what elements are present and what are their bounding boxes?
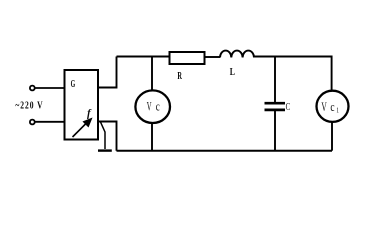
ground bar (98, 149, 112, 151)
wire junction down to voltmeter Vc (151, 57, 153, 91)
terminal bottom (30, 120, 35, 125)
terminal top (30, 86, 35, 91)
svg-text:V: V (147, 98, 152, 113)
capacitor branch bottom wire (274, 111, 276, 151)
wire top terminal to G (35, 87, 64, 89)
bottom rail (117, 150, 333, 152)
ground lead (101, 122, 106, 149)
top rail left segment (117, 56, 169, 58)
inductor L (220, 51, 254, 58)
capacitor C bottom plate (265, 109, 286, 112)
variable frequency arrow (73, 118, 93, 137)
generator G box (65, 70, 99, 140)
voltmeter Vc1 (317, 91, 349, 122)
svg-text:~220 V: ~220 V (15, 101, 43, 112)
svg-text:C: C (286, 101, 291, 113)
wire G bottom output down to bottom rail (99, 122, 117, 151)
svg-text:c: c (330, 100, 335, 114)
wire G top output to top rail (99, 57, 117, 88)
capacitor branch top wire (274, 57, 276, 103)
svg-text:L: L (230, 67, 235, 78)
svg-text:c: c (156, 98, 160, 113)
voltmeter Vc (135, 90, 170, 123)
wire Vc1 bottom to bottom rail (331, 122, 333, 151)
wire resistor to inductor (206, 56, 221, 58)
wire Vc bottom to bottom rail (151, 123, 153, 151)
top rail right segment to right corner, down to Vc1 (254, 57, 332, 91)
capacitor C top plate (265, 102, 286, 105)
svg-text:G: G (71, 79, 76, 90)
svg-text:V: V (321, 100, 326, 114)
svg-text:1: 1 (336, 106, 339, 115)
wire bottom terminal to G (35, 121, 64, 123)
resistor R (170, 52, 205, 64)
svg-text:R: R (177, 71, 182, 82)
